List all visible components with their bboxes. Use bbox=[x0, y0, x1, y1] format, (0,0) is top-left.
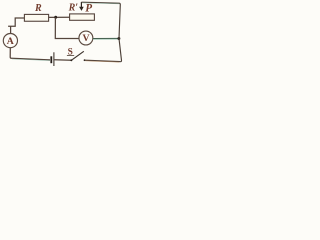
switch S: pivot dot bbox=[70, 59, 72, 61]
junction node (R / voltmeter tap) bbox=[54, 16, 57, 19]
junction node on right rail bbox=[117, 37, 120, 40]
wire R to rheostat bbox=[49, 16, 70, 18]
resistor R bbox=[24, 14, 48, 21]
switch right terminal bbox=[84, 59, 86, 61]
svg-text:R′: R′ bbox=[68, 3, 79, 14]
svg-text:V: V bbox=[83, 33, 90, 44]
wire junction down to voltmeter bbox=[55, 18, 79, 39]
slider arrow P bbox=[79, 2, 84, 11]
battery: short thick plate (left) bbox=[50, 56, 52, 63]
svg-text:R: R bbox=[34, 3, 42, 14]
wire A bottom to battery bbox=[10, 48, 50, 60]
ammeter A bbox=[3, 34, 17, 48]
battery: long thin plate (right) bbox=[53, 52, 55, 66]
svg-text:A: A bbox=[7, 36, 14, 47]
voltmeter V bbox=[79, 31, 93, 45]
wire voltmeter to right rail (greenish) bbox=[93, 38, 118, 40]
label S (underlined) bbox=[67, 47, 74, 57]
svg-text:P: P bbox=[85, 3, 92, 15]
wire switch to bottom-right corner bbox=[85, 60, 120, 61]
rheostat R' bbox=[70, 14, 95, 20]
switch blade (open) bbox=[72, 51, 84, 59]
wire A top to resistor R (jog up) bbox=[8, 18, 24, 34]
wire slider to top-right corner and right rail bbox=[81, 2, 121, 61]
svg-text:S: S bbox=[68, 47, 73, 57]
wire battery to switch bbox=[55, 59, 72, 61]
